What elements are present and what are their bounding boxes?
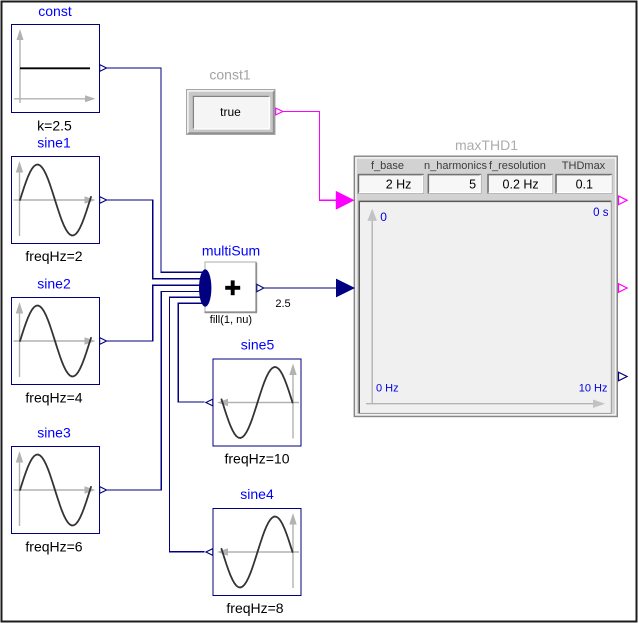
svg-text:sine2: sine2 bbox=[37, 276, 71, 292]
block sine1 bbox=[12, 135, 107, 265]
svg-text:sine5: sine5 bbox=[241, 337, 275, 353]
svg-text:sine3: sine3 bbox=[37, 425, 71, 441]
sine1 sine curve bbox=[20, 165, 91, 236]
port sine2.y bbox=[100, 338, 107, 345]
svg-text:0.2 Hz: 0.2 Hz bbox=[503, 177, 539, 191]
svg-text:const1: const1 bbox=[209, 67, 250, 83]
svg-text:maxTHD1: maxTHD1 bbox=[455, 137, 518, 153]
svg-text:0 s: 0 s bbox=[593, 207, 609, 219]
output port top right (magenta) bbox=[619, 196, 628, 205]
output port mid right (magenta) bbox=[619, 284, 628, 293]
svg-text:freqHz=8: freqHz=8 bbox=[226, 600, 283, 616]
wire const to multiSum bbox=[107, 68, 205, 272]
svg-text:freqHz=10: freqHz=10 bbox=[225, 451, 290, 467]
block sine5 (mirrored) bbox=[206, 359, 301, 446]
port sine4.y bbox=[206, 549, 213, 556]
plot h axis bbox=[366, 403, 594, 405]
svg-text:true: true bbox=[220, 105, 241, 119]
svg-text:freqHz=4: freqHz=4 bbox=[25, 390, 82, 406]
input arrow booleanInput (magenta filled) bbox=[336, 191, 355, 210]
plus sign bbox=[225, 286, 240, 290]
port sine1.y bbox=[100, 197, 107, 204]
wire const1 to maxTHD1 (magenta) bbox=[283, 112, 337, 201]
svg-text:freqHz=2: freqHz=2 bbox=[25, 248, 82, 264]
svg-text:2.5: 2.5 bbox=[275, 298, 290, 310]
svg-text:10 Hz: 10 Hz bbox=[579, 383, 608, 395]
wire multiSum to maxTHD1 bbox=[264, 287, 338, 289]
sine5 sine curve bbox=[222, 367, 293, 438]
sine2 sine curve bbox=[20, 306, 91, 377]
port multiSum.y bbox=[257, 284, 264, 291]
field THDmax bbox=[556, 174, 612, 193]
svg-text:const: const bbox=[38, 3, 72, 19]
svg-text:0 Hz: 0 Hz bbox=[376, 383, 399, 395]
field f_resolution bbox=[488, 174, 553, 193]
plot v axis bbox=[371, 220, 373, 404]
sine4 sine curve bbox=[222, 517, 293, 588]
output port low right (navy) bbox=[619, 372, 628, 381]
svg-text:f_base: f_base bbox=[371, 160, 404, 172]
block const1 (boolean) bbox=[187, 67, 284, 135]
svg-text:fill(1, nu): fill(1, nu) bbox=[210, 314, 252, 326]
sine5 icon axes bbox=[217, 364, 299, 439]
block sine3 bbox=[12, 447, 107, 534]
multiSum ellipse bbox=[199, 269, 211, 306]
sine3 icon axes bbox=[14, 451, 96, 526]
plot area bbox=[359, 201, 612, 414]
svg-text:sine1: sine1 bbox=[37, 135, 71, 151]
sine4 icon axes bbox=[217, 513, 299, 588]
svg-text:f_resolution: f_resolution bbox=[489, 160, 546, 172]
block const bbox=[12, 3, 107, 134]
svg-text:THDmax: THDmax bbox=[562, 160, 606, 172]
svg-text:0: 0 bbox=[380, 210, 387, 224]
wire sine2 to multiSum bbox=[107, 285, 205, 341]
wire sine5 to multiSum bbox=[178, 303, 204, 402]
svg-text:k=2.5: k=2.5 bbox=[37, 118, 72, 134]
block multiSum bbox=[199, 243, 264, 327]
wire sine3 to multiSum bbox=[107, 292, 205, 491]
port sine3.y bbox=[100, 487, 107, 494]
block maxTHD1 bbox=[336, 137, 627, 417]
wire sine1 to multiSum bbox=[107, 200, 205, 279]
sine1 icon axes bbox=[14, 161, 96, 236]
svg-text:freqHz=6: freqHz=6 bbox=[25, 539, 82, 555]
svg-text:2 Hz: 2 Hz bbox=[386, 177, 412, 191]
wire sine4 to multiSum bbox=[170, 297, 205, 551]
input arrow signalInput (navy filled) bbox=[336, 279, 355, 298]
sine2 icon axes bbox=[14, 302, 96, 377]
block sine4 (mirrored) bbox=[206, 509, 301, 596]
port const.y bbox=[100, 65, 107, 72]
svg-text:0.1: 0.1 bbox=[576, 177, 593, 191]
field f_base bbox=[358, 174, 423, 193]
svg-text:5: 5 bbox=[469, 177, 476, 191]
block sine2 bbox=[12, 298, 107, 385]
field n_harmonics bbox=[428, 174, 481, 193]
port sine5.y bbox=[206, 399, 213, 406]
svg-text:n_harmonics: n_harmonics bbox=[424, 160, 487, 172]
port const1.y bbox=[276, 108, 283, 115]
svg-text:sine4: sine4 bbox=[240, 486, 274, 502]
svg-text:multiSum: multiSum bbox=[202, 243, 260, 259]
sine3 sine curve bbox=[20, 455, 91, 526]
